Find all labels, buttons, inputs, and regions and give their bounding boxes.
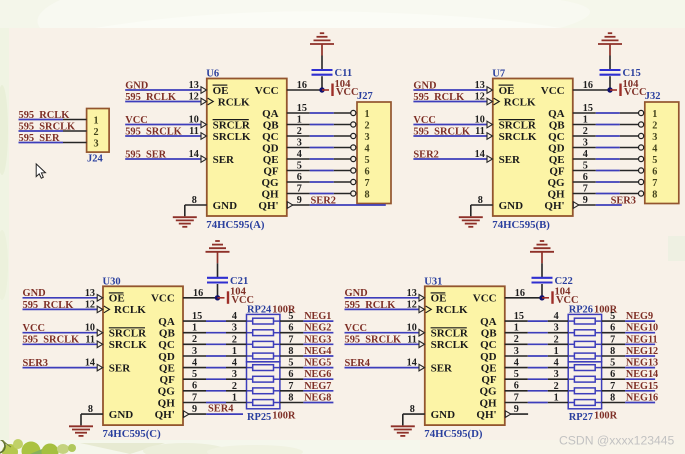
J32 pin 2 stub	[620, 124, 639, 126]
svg-text:SRCLK: SRCLK	[109, 339, 147, 351]
U7 GND pin 8 stub	[471, 204, 493, 206]
svg-text:SER4: SER4	[208, 404, 233, 415]
wire SER4	[206, 413, 243, 415]
svg-text:100R: 100R	[594, 410, 618, 421]
svg-text:6: 6	[514, 381, 519, 392]
svg-text:QD: QD	[262, 142, 279, 154]
U30 output stub pin 2	[183, 343, 206, 345]
svg-text:3: 3	[554, 369, 559, 380]
svg-text:QB: QB	[549, 119, 566, 131]
U6 VCC pin 16 wire	[287, 89, 322, 91]
U30 input pin arrow	[97, 295, 103, 302]
svg-text:8: 8	[478, 195, 483, 206]
capacitor C21	[207, 277, 228, 279]
svg-text:4: 4	[192, 357, 197, 368]
svg-text:QE: QE	[159, 362, 175, 374]
svg-text:74HC595(C): 74HC595(C)	[103, 428, 162, 440]
U30 input pin arrow	[97, 364, 103, 371]
svg-text:5: 5	[365, 155, 370, 166]
U31 output stub pin 7	[505, 402, 528, 404]
resistor RP24d	[247, 355, 253, 357]
U31 input pin arrow	[419, 341, 425, 348]
wire	[310, 112, 334, 114]
U6 output stub pin 2	[287, 135, 310, 137]
ground (inverted) above C15	[598, 43, 622, 45]
svg-text:12: 12	[407, 299, 417, 310]
wire	[206, 343, 226, 345]
pack output pin 6 stub	[602, 378, 626, 380]
U31 GND pin 8 stub	[403, 413, 425, 415]
svg-text:VCC: VCC	[255, 85, 279, 97]
wire NEG13	[625, 367, 655, 369]
svg-text:5: 5	[192, 369, 197, 380]
U31 input pin arrow	[419, 306, 425, 313]
svg-text:7: 7	[610, 334, 615, 345]
ground (inverted) above C11	[310, 43, 334, 45]
wire NEG8	[303, 402, 333, 404]
U31 output stub pin 4	[505, 367, 528, 369]
U7 input pin arrow	[487, 133, 493, 140]
U7 input pin arrow	[487, 98, 493, 105]
U31 QH' output chevron	[505, 411, 511, 418]
svg-text:VCC: VCC	[624, 87, 647, 98]
svg-text:QH': QH'	[544, 200, 564, 212]
wire	[310, 147, 334, 149]
wire C11 to VCC rail	[321, 76, 323, 90]
J27 pin 1 terminal circle	[351, 110, 356, 115]
wire	[596, 181, 620, 183]
resistor RP25b	[247, 378, 253, 380]
U6 input pin arrow	[201, 121, 207, 128]
ground (inverted) above C21	[206, 251, 230, 253]
U30 output stub pin 7	[183, 402, 206, 404]
J32 pin 1 terminal circle	[639, 110, 644, 115]
svg-text:QB: QB	[481, 328, 498, 340]
svg-text:4: 4	[554, 311, 559, 322]
J27 pin 8 terminal circle	[351, 191, 356, 196]
resistor RP24c	[247, 343, 253, 345]
svg-text:SER: SER	[499, 154, 521, 166]
U6 QH' stub	[292, 204, 310, 206]
J32 pin 6 stub	[620, 170, 639, 172]
pack output pin 7 stub	[280, 343, 304, 345]
svg-text:C11: C11	[335, 68, 353, 79]
J32 pin 6 terminal circle	[639, 168, 644, 173]
svg-text:QB: QB	[263, 119, 280, 131]
U7 input pin arrow	[487, 156, 493, 163]
svg-text:QF: QF	[263, 165, 279, 177]
J32 pin 1 stub	[620, 112, 639, 114]
svg-text:VCC: VCC	[473, 293, 497, 305]
svg-text:4: 4	[652, 143, 657, 154]
svg-text:9: 9	[514, 404, 519, 415]
RP24 pin 1 stub	[226, 355, 247, 357]
U30 input pin arrow	[97, 329, 103, 336]
wire	[310, 124, 334, 126]
svg-text:QE: QE	[481, 362, 497, 374]
svg-text:QC: QC	[480, 339, 497, 351]
wire NEG1	[303, 320, 333, 322]
pack output pin 6 stub	[602, 332, 626, 334]
svg-text:1: 1	[554, 393, 559, 404]
RP27 pin 3 stub	[548, 378, 568, 380]
svg-text:U31: U31	[424, 276, 442, 287]
svg-text:5: 5	[610, 311, 615, 322]
U31 output stub pin 2	[505, 343, 528, 345]
U31 output stub pin 15	[505, 320, 528, 322]
U7 output stub pin 3	[573, 147, 596, 149]
svg-text:QH: QH	[158, 397, 176, 409]
U31 output stub pin 3	[505, 355, 528, 357]
U31 output stub pin 5	[505, 378, 528, 380]
pack output pin 5 stub	[602, 367, 626, 369]
svg-text:2: 2	[365, 120, 370, 131]
U6 output stub pin 1	[287, 124, 310, 126]
U7 output stub pin 5	[573, 170, 596, 172]
svg-text:6: 6	[365, 166, 370, 177]
svg-text:RCLK: RCLK	[114, 304, 146, 316]
svg-text:SRCLK: SRCLK	[431, 339, 469, 351]
J27 pin 7 stub	[334, 181, 351, 183]
wire	[596, 147, 620, 149]
wire C15 to VCC rail	[609, 76, 611, 90]
wire	[310, 181, 334, 183]
wire GND	[413, 89, 487, 91]
wire SER3	[596, 204, 622, 206]
junction at C15	[607, 87, 612, 92]
U7 VCC pin 16 wire	[573, 89, 610, 91]
svg-text:12: 12	[85, 299, 95, 310]
svg-text:12: 12	[189, 92, 199, 103]
J27 pin 1 stub	[334, 112, 351, 114]
svg-text:8: 8	[88, 404, 93, 415]
wire	[596, 112, 620, 114]
U6 QH' output chevron	[287, 202, 293, 209]
wire NEG14	[625, 378, 655, 380]
resistor RP27c	[568, 390, 574, 392]
J27 pin 6 terminal circle	[351, 168, 356, 173]
U6 input pin arrow	[201, 133, 207, 140]
svg-text:RP25: RP25	[247, 412, 271, 423]
wire	[596, 158, 620, 160]
wire 595_RCLK	[125, 101, 201, 103]
svg-text:RCLK: RCLK	[218, 96, 250, 108]
svg-text:U6: U6	[206, 69, 219, 80]
svg-text:10: 10	[189, 115, 199, 126]
svg-text:QA: QA	[262, 108, 279, 120]
shift register U30 body	[103, 286, 183, 425]
capacitor C15	[600, 69, 621, 71]
svg-text:2: 2	[232, 381, 237, 392]
wire	[528, 378, 548, 380]
RP24 pin 4 stub	[226, 320, 247, 322]
svg-text:RCLK: RCLK	[436, 304, 468, 316]
svg-text:74HC595(B): 74HC595(B)	[492, 219, 550, 231]
svg-text:8: 8	[410, 404, 415, 415]
svg-text:6: 6	[610, 369, 615, 380]
svg-text:GND: GND	[213, 200, 238, 212]
junction at C11	[319, 87, 324, 92]
wire	[310, 193, 334, 195]
U6 output stub pin 3	[287, 147, 310, 149]
U6 clock mark on RCLK	[208, 98, 214, 105]
svg-text:8: 8	[192, 195, 197, 206]
svg-text:QD: QD	[548, 142, 565, 154]
wire	[206, 390, 226, 392]
decorative left strip	[0, 28, 9, 440]
svg-text:4: 4	[514, 357, 519, 368]
svg-text:U30: U30	[103, 276, 121, 287]
svg-text:QG: QG	[547, 177, 565, 189]
J24 pin 3 stub	[63, 142, 87, 144]
U7 input pin arrow	[487, 121, 493, 128]
svg-text:SRCLK: SRCLK	[499, 131, 537, 143]
capacitor C22	[532, 277, 553, 279]
J32 pin 8 terminal circle	[639, 191, 644, 196]
svg-text:SER: SER	[431, 362, 453, 374]
wire	[206, 367, 226, 369]
svg-text:3: 3	[297, 137, 302, 148]
U7 QH' stub	[578, 204, 596, 206]
svg-text:3: 3	[232, 323, 237, 334]
wire SER2	[310, 204, 386, 206]
wire ground stem of C15	[609, 44, 611, 56]
pack output pin 8 stub	[280, 402, 304, 404]
resistor RP25d	[247, 402, 253, 404]
svg-text:2: 2	[554, 334, 559, 345]
J32 pin 3 stub	[620, 135, 639, 137]
J27 pin 5 terminal circle	[351, 156, 356, 161]
svg-text:GND: GND	[499, 200, 523, 212]
svg-text:U7: U7	[492, 69, 505, 80]
pack output pin 6 stub	[280, 378, 304, 380]
svg-text:2: 2	[652, 120, 657, 131]
U30 input pin arrow	[97, 306, 103, 313]
svg-text:OE: OE	[213, 85, 229, 97]
svg-text:9: 9	[192, 404, 197, 415]
svg-text:GND: GND	[431, 409, 456, 421]
J27 pin 6 stub	[334, 170, 351, 172]
svg-text:C21: C21	[230, 276, 248, 287]
J27 pin 3 stub	[334, 135, 351, 137]
U30 output stub pin 3	[183, 355, 206, 357]
svg-text:5: 5	[297, 160, 302, 171]
wire 595_SRCLK	[345, 343, 420, 345]
wire NEG2	[303, 332, 333, 334]
U31 input pin arrow	[419, 295, 425, 302]
U6 input pin arrow	[201, 156, 207, 163]
svg-text:4: 4	[583, 149, 588, 160]
ground at U6	[173, 216, 197, 218]
svg-text:VCC: VCC	[151, 293, 175, 305]
U6 output stub pin 6	[287, 181, 310, 183]
pack output pin 7 stub	[280, 390, 304, 392]
capacitor C11	[312, 69, 333, 71]
wire	[596, 124, 620, 126]
svg-text:C22: C22	[555, 276, 573, 287]
svg-text:1: 1	[192, 323, 197, 334]
U30 output stub pin 4	[183, 367, 206, 369]
wire SER4	[345, 367, 420, 369]
svg-text:1: 1	[652, 109, 657, 120]
svg-text:QC: QC	[158, 339, 175, 351]
wire GND	[23, 297, 98, 299]
svg-text:11: 11	[189, 126, 199, 137]
RP26 pin 4 stub	[548, 320, 568, 322]
wire	[206, 355, 226, 357]
svg-text:5: 5	[610, 358, 615, 369]
resistor RP24a	[247, 320, 253, 322]
U6 input pin arrow	[201, 87, 207, 94]
svg-text:3: 3	[554, 323, 559, 334]
resistor RP27b	[568, 378, 574, 380]
U31 QH' stub	[510, 413, 528, 415]
svg-text:QG: QG	[261, 177, 279, 189]
U6 output stub pin 15	[287, 112, 310, 114]
U6 input pin arrow	[201, 98, 207, 105]
svg-text:OE: OE	[431, 293, 447, 305]
svg-text:QH: QH	[547, 188, 565, 200]
U7 output stub pin 2	[573, 135, 596, 137]
svg-text:J32: J32	[645, 91, 661, 102]
svg-text:QF: QF	[160, 374, 176, 386]
svg-text:12: 12	[475, 92, 485, 103]
svg-text:11: 11	[475, 126, 485, 137]
U31 clock mark on RCLK	[426, 306, 432, 313]
J32 pin 7 stub	[620, 181, 639, 183]
wire	[310, 135, 334, 137]
svg-text:7: 7	[652, 178, 657, 189]
wire 595_SER to J24	[19, 142, 64, 144]
svg-text:7: 7	[610, 381, 615, 392]
svg-text:6: 6	[583, 172, 588, 183]
svg-text:QE: QE	[263, 154, 279, 166]
svg-text:QE: QE	[549, 154, 565, 166]
svg-text:6: 6	[288, 369, 293, 380]
svg-text:5: 5	[514, 369, 519, 380]
svg-text:CSDN @xxxx123445: CSDN @xxxx123445	[559, 434, 675, 448]
U31 input pin arrow	[419, 364, 425, 371]
svg-text:QD: QD	[158, 351, 175, 363]
J32 pin 4 terminal circle	[639, 145, 644, 150]
U30 output stub pin 1	[183, 332, 206, 334]
resistor RP26b	[568, 332, 574, 334]
svg-text:1: 1	[514, 323, 519, 334]
ground at U31	[391, 425, 415, 427]
J32 pin 7 terminal circle	[639, 179, 644, 184]
resistor pack RP27 body	[568, 362, 601, 409]
svg-text:5: 5	[652, 155, 657, 166]
pack output pin 5 stub	[280, 320, 304, 322]
power port VCC near U6	[322, 89, 329, 91]
svg-text:15: 15	[192, 311, 202, 322]
pack output pin 5 stub	[602, 320, 626, 322]
wire	[528, 367, 548, 369]
wire 595_SRCLK	[23, 343, 98, 345]
svg-text:13: 13	[189, 80, 199, 91]
svg-text:3: 3	[514, 346, 519, 357]
J27 pin 2 stub	[334, 124, 351, 126]
RP27 pin 2 stub	[548, 390, 568, 392]
U30 GND pin 8 stub	[81, 413, 103, 415]
pack output pin 8 stub	[602, 355, 626, 357]
svg-text:SER: SER	[109, 362, 131, 374]
J32 pin 5 stub	[620, 158, 639, 160]
svg-text:2: 2	[94, 127, 99, 138]
svg-text:SRCLR: SRCLR	[109, 328, 147, 340]
svg-text:13: 13	[85, 288, 95, 299]
U30 output stub pin 15	[183, 320, 206, 322]
svg-text:1: 1	[94, 115, 99, 126]
svg-text:14: 14	[475, 149, 485, 160]
svg-text:5: 5	[288, 311, 293, 322]
wire	[528, 402, 548, 404]
svg-text:SRCLR: SRCLR	[499, 119, 537, 131]
svg-text:RCLK: RCLK	[504, 96, 536, 108]
resistor RP27a	[568, 367, 574, 369]
svg-text:15: 15	[514, 311, 524, 322]
wire VCC	[345, 332, 420, 334]
wire GND	[125, 89, 201, 91]
svg-text:8: 8	[610, 393, 615, 404]
U30 QH' stub	[189, 413, 207, 415]
svg-text:4: 4	[232, 311, 237, 322]
svg-text:6: 6	[610, 323, 615, 334]
U30 QH' output chevron	[184, 411, 190, 418]
U7 output stub pin 7	[573, 193, 596, 195]
svg-text:100R: 100R	[272, 410, 296, 421]
svg-text:16: 16	[297, 80, 307, 91]
mouse cursor	[36, 164, 45, 178]
wire	[596, 170, 620, 172]
svg-text:4: 4	[297, 149, 302, 160]
svg-text:1: 1	[232, 393, 237, 404]
svg-text:OE: OE	[109, 293, 125, 305]
power port VCC near U31	[542, 297, 549, 299]
wire 595_RCLK	[23, 308, 98, 310]
pack output pin 8 stub	[280, 355, 304, 357]
J27 pin 4 stub	[334, 147, 351, 149]
svg-text:QH': QH'	[476, 409, 496, 421]
wire VCC	[413, 124, 487, 126]
U7 output stub pin 1	[573, 124, 596, 126]
U7 clock mark on RCLK	[494, 98, 500, 105]
svg-text:6: 6	[192, 381, 197, 392]
svg-text:8: 8	[610, 346, 615, 357]
ground at U30	[69, 425, 93, 427]
connector J32 body	[645, 102, 679, 204]
svg-text:J24: J24	[87, 153, 104, 164]
wire	[310, 170, 334, 172]
svg-text:1: 1	[232, 346, 237, 357]
svg-text:13: 13	[475, 80, 485, 91]
svg-text:QC: QC	[548, 131, 565, 143]
U30 output stub pin 6	[183, 390, 206, 392]
wire 595_SRCLK	[413, 135, 487, 137]
svg-text:QA: QA	[548, 108, 565, 120]
svg-text:74HC595(A): 74HC595(A)	[206, 219, 265, 231]
J32 pin 4 stub	[620, 147, 639, 149]
shift register U31 body	[425, 286, 505, 425]
junction at C21	[215, 295, 220, 300]
svg-text:7: 7	[514, 392, 519, 403]
wire	[528, 355, 548, 357]
RP26 pin 1 stub	[548, 355, 568, 357]
connector J24 body	[87, 109, 110, 153]
svg-text:2: 2	[232, 334, 237, 345]
svg-text:10: 10	[407, 323, 417, 334]
U6 output stub pin 4	[287, 158, 310, 160]
